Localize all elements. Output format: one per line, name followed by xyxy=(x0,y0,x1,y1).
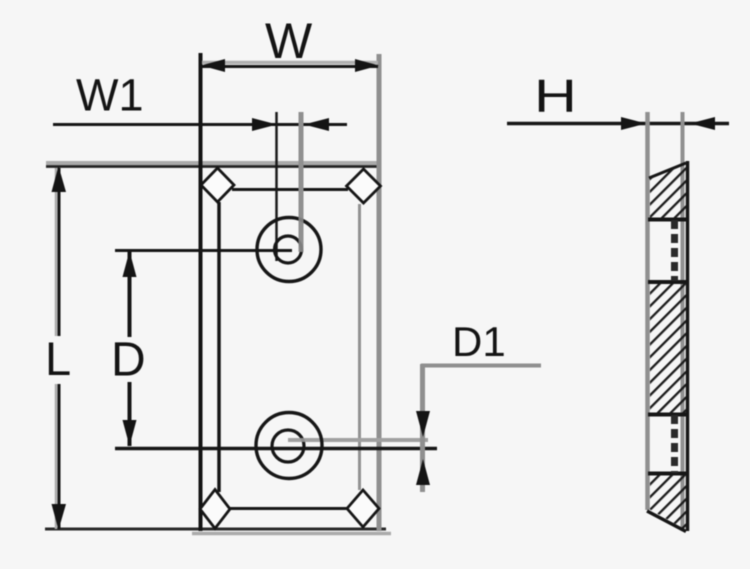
D top extension (to top hole centre) xyxy=(115,249,292,252)
bottom hole inner circle xyxy=(272,430,304,462)
H dimension line xyxy=(507,122,729,126)
L dimension line xyxy=(55,168,58,336)
W dim arrow right xyxy=(355,59,379,72)
H arrow pointing left xyxy=(690,117,715,130)
inner left line connecting corner pads xyxy=(217,202,221,492)
svg-text:H: H xyxy=(534,71,577,122)
svg-text:D: D xyxy=(111,334,146,387)
gray tangent overlay across bottom hole inner circle xyxy=(294,438,312,442)
W1 dimension line xyxy=(53,123,347,126)
hatch section 2 (middle) xyxy=(650,283,686,413)
D1 leader vertical (gray) xyxy=(420,364,425,492)
side section 2 bottom line xyxy=(648,413,688,417)
side view top slant edge xyxy=(649,163,686,178)
side section 3 top line xyxy=(648,472,688,476)
bottom hole gray tangent line xyxy=(288,438,428,442)
side section 2 top line xyxy=(648,280,688,284)
hatch section 3 (bottom) xyxy=(650,475,686,530)
bottom hole outer circle xyxy=(256,413,322,479)
side view left edge (gray) + H extension xyxy=(645,112,650,510)
L arrow bottom xyxy=(52,504,67,530)
gray overlay continuing through top hole xyxy=(299,216,304,252)
corner pad top-right xyxy=(347,169,381,203)
inner right line (gray) xyxy=(358,204,361,490)
svg-text:W: W xyxy=(265,13,313,69)
gray tangent extension line (top hole) xyxy=(299,112,304,252)
plate bottom edge (extended left) xyxy=(45,528,386,531)
H arrow pointing right xyxy=(621,117,646,130)
hidden hole dashed line (top) xyxy=(671,220,678,281)
W1 arrow pointing right xyxy=(252,118,277,131)
side view right edge black xyxy=(686,161,690,531)
W1 arrow pointing left xyxy=(304,118,329,131)
corner pad bottom-left xyxy=(200,490,230,529)
inner top line xyxy=(232,188,348,191)
plate top edge (extended left for L dimension) xyxy=(46,161,381,165)
D dimension line xyxy=(128,251,132,337)
inner bottom line xyxy=(230,507,348,510)
top hole outer circle xyxy=(257,218,321,282)
svg-text:D1: D1 xyxy=(452,318,506,365)
hatch section 1 (top) xyxy=(650,163,686,219)
side view bottom slant edge xyxy=(647,511,686,532)
D arrow bottom xyxy=(123,420,137,446)
D1 leader horizontal (gray) xyxy=(421,364,541,368)
hole centre extension line (thin) xyxy=(275,112,278,261)
side section 1 bottom line xyxy=(648,218,688,222)
top hole inner circle xyxy=(275,236,302,263)
hidden hole dashed line (bottom) xyxy=(671,415,678,473)
corner pad bottom-right xyxy=(347,490,379,527)
svg-text:L: L xyxy=(45,332,71,385)
D bottom extension / bottom hole centreline xyxy=(115,447,437,451)
svg-text:W1: W1 xyxy=(76,70,144,121)
side view right edge gray + H extension xyxy=(681,112,685,531)
plate right edge (gray) + W extension xyxy=(377,54,382,531)
W dimension line xyxy=(202,61,378,65)
corner pad top-left xyxy=(201,168,234,202)
L arrow top xyxy=(52,166,67,192)
W dim arrow left xyxy=(201,59,225,72)
D1 arrow down xyxy=(416,411,430,437)
D arrow top xyxy=(123,251,137,277)
plate left edge + W extension line xyxy=(199,53,203,531)
D1 arrow up xyxy=(416,459,430,485)
